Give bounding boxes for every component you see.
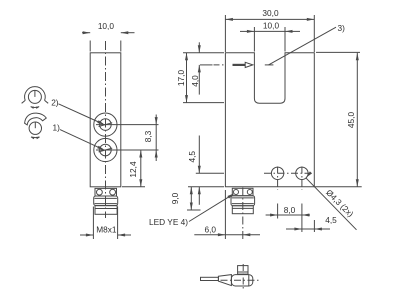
dimension 45,0 front height bbox=[314, 52, 361, 186]
label LED YE 4 with leader bbox=[149, 193, 235, 227]
dimension 4,5 left bbox=[187, 136, 224, 205]
dimension 30,0 front width bbox=[225, 8, 314, 52]
dimension 4,5 hole to edge bbox=[286, 215, 337, 232]
front connector centerline bbox=[242, 188, 244, 240]
dimension 8,3 pot spacing bbox=[96, 115, 159, 162]
label 2 leader to upper pot bbox=[51, 97, 105, 124]
svg-text:9,0: 9,0 bbox=[170, 192, 180, 204]
front connector nut bbox=[232, 206, 253, 214]
left view vertical centerline bbox=[105, 41, 107, 218]
dimension 10,0 left view width bbox=[82, 21, 135, 51]
potentiometer 1 lower bbox=[94, 138, 117, 161]
label 1 leader to lower pot bbox=[53, 122, 105, 150]
left view connector flange with LEDs bbox=[95, 188, 117, 196]
front connector flange with LEDs bbox=[232, 188, 253, 195]
front view fork outline bbox=[225, 53, 314, 187]
svg-text:3): 3) bbox=[338, 23, 346, 33]
adjustment knob icon 2 bbox=[22, 87, 49, 109]
svg-text:30,0: 30,0 bbox=[262, 8, 279, 18]
svg-text:10,0: 10,0 bbox=[263, 21, 280, 31]
label 3 leader to beam bbox=[269, 23, 346, 65]
connector body bbox=[231, 275, 252, 286]
dimension 10,0 slot width bbox=[240, 21, 300, 52]
dimension 6,0 edge to connector bbox=[194, 190, 260, 239]
svg-text:M8x1: M8x1 bbox=[96, 224, 117, 234]
svg-text:4,0: 4,0 bbox=[190, 75, 200, 87]
svg-text:10,0: 10,0 bbox=[98, 21, 115, 31]
dimension 9,0 bbox=[170, 187, 224, 210]
svg-text:4,5: 4,5 bbox=[187, 151, 197, 163]
connector head bbox=[238, 266, 248, 275]
dimension 8,0 hole spacing bbox=[266, 205, 310, 217]
mounting hole left with centerline bbox=[264, 167, 311, 179]
svg-text:8,0: 8,0 bbox=[284, 205, 296, 215]
svg-text:1): 1) bbox=[53, 122, 61, 132]
cable bbox=[201, 277, 219, 280]
svg-text:LED YE 4): LED YE 4) bbox=[149, 217, 188, 227]
label diameter 4,3 2x with leader bbox=[306, 171, 357, 229]
dimension 4,0 beam offset bbox=[190, 42, 213, 94]
left view connector nut bbox=[95, 206, 117, 215]
potentiometer 2 upper bbox=[94, 113, 117, 136]
front connector thread bbox=[231, 196, 255, 206]
dimension 17,0 slot depth bbox=[176, 53, 224, 103]
connector centerlines bbox=[221, 264, 259, 289]
dimension M8x1 thread bbox=[80, 207, 131, 240]
left view body outline bbox=[90, 53, 121, 187]
left view connector thread bbox=[94, 196, 118, 206]
svg-text:12,4: 12,4 bbox=[128, 161, 138, 178]
svg-text:8,3: 8,3 bbox=[143, 130, 153, 142]
mounting hole right with centerlines bbox=[278, 167, 308, 233]
adjustment knob icon 1 bbox=[25, 113, 47, 139]
svg-text:2): 2) bbox=[51, 97, 59, 107]
svg-text:17,0: 17,0 bbox=[176, 70, 186, 87]
cable strain relief cone bbox=[218, 275, 231, 286]
dimension 12,4 pot to bottom bbox=[122, 150, 145, 187]
svg-text:4,5: 4,5 bbox=[325, 215, 337, 225]
svg-text:45,0: 45,0 bbox=[346, 112, 356, 129]
svg-text:6,0: 6,0 bbox=[205, 225, 217, 235]
light beam axis arrow bbox=[214, 62, 274, 67]
